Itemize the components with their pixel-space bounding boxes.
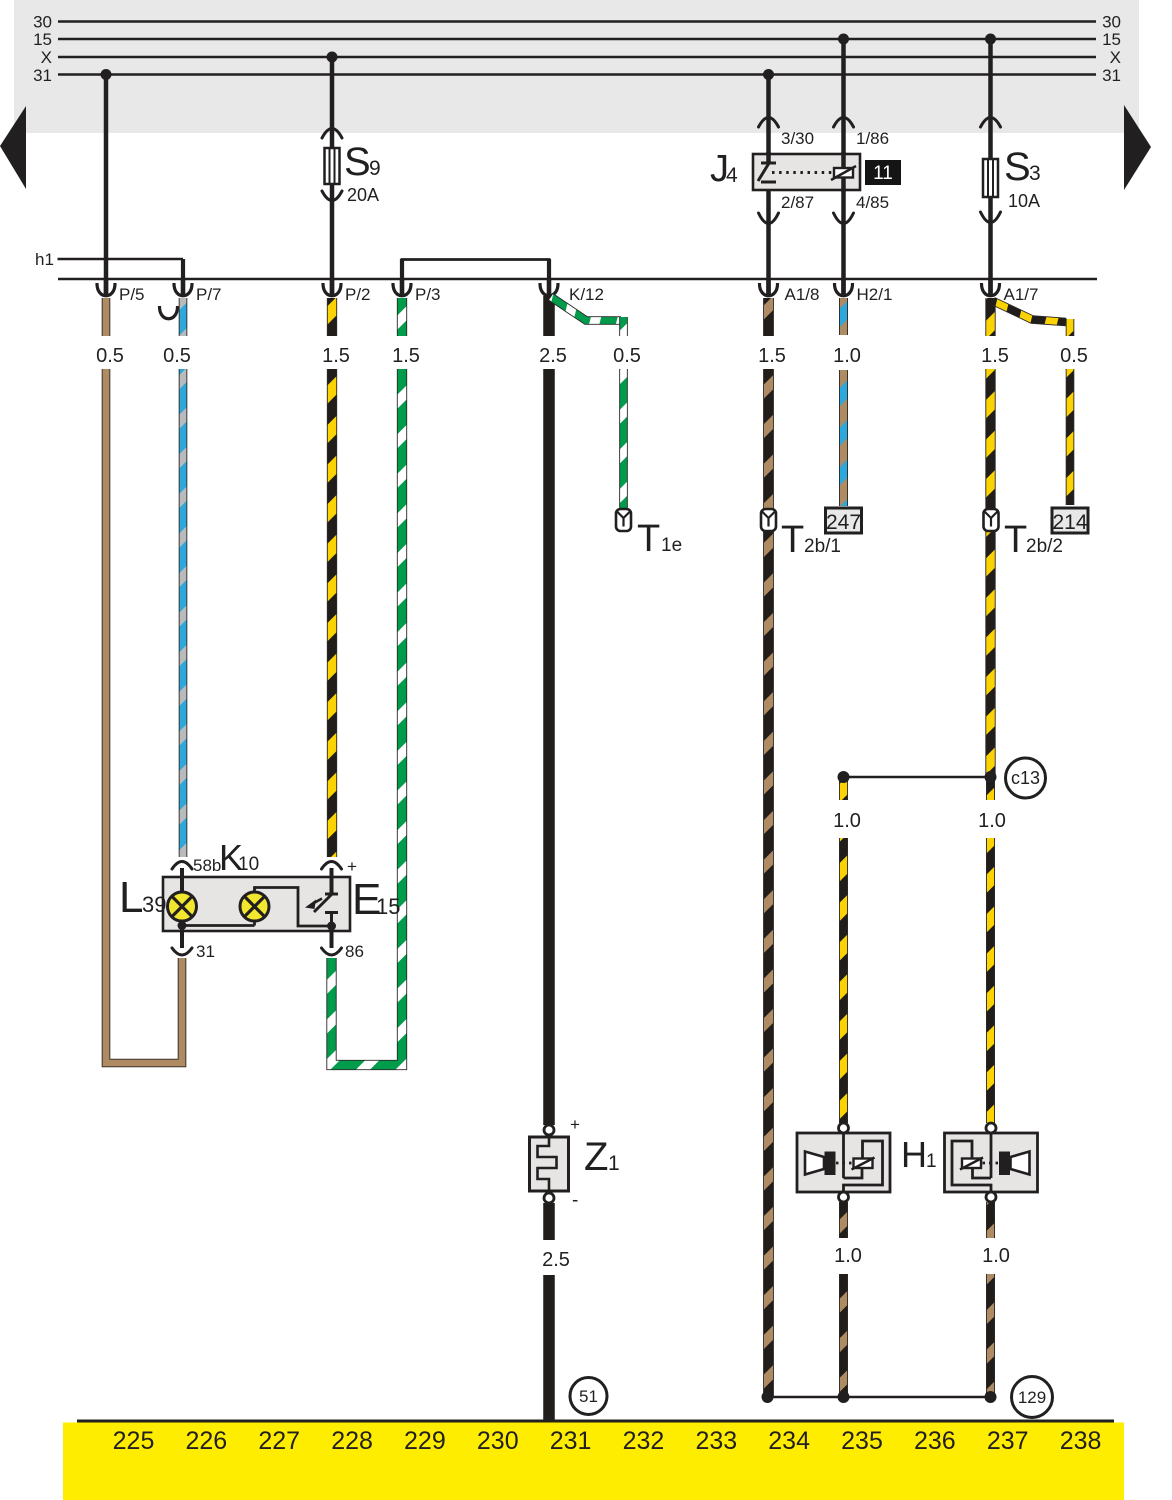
wire S9 upper (330, 57, 335, 148)
connector arch above S9 (322, 129, 342, 139)
svg-text:214: 214 (1052, 511, 1087, 534)
switch assembly box E15 (163, 877, 350, 931)
wire black Z1 to ground51 (543, 1203, 555, 1419)
wire terminal31 stub (180, 926, 184, 949)
svg-text:X: X (1110, 48, 1121, 67)
connector T2b/1 (761, 509, 841, 561)
wire yellow/black A1/7 through T2b/2 to node c13 (985, 298, 995, 777)
connector arch 58b (172, 862, 192, 870)
connector arch above S3 (981, 118, 1001, 128)
left page arrow (0, 106, 26, 189)
wire green/white P/3 to terminal86 (U-run) (332, 298, 403, 1065)
connector vee 86 (322, 948, 342, 955)
bus 31 (58, 73, 1096, 76)
svg-text:1/86: 1/86 (856, 129, 889, 148)
svg-text:229: 229 (404, 1427, 446, 1455)
svg-text:L: L (119, 873, 143, 922)
connector vee below J4 right (834, 213, 854, 224)
wire bridge stubs (400, 259, 404, 296)
svg-text:230: 230 (477, 1427, 519, 1455)
svg-text:0.5: 0.5 (613, 345, 641, 367)
node ground junction horn2 (985, 1391, 997, 1403)
svg-text:0.5: 0.5 (1060, 345, 1088, 367)
bus 30 (58, 20, 1096, 23)
wire terminal86 stub (330, 926, 334, 948)
node junction bus15/J4 (838, 34, 849, 45)
lamp K10 (240, 892, 269, 921)
svg-text:Z: Z (584, 1135, 608, 1179)
bus X (58, 56, 1096, 59)
designator E15 (352, 875, 400, 924)
gauge label 1.5 on A1/8 wire (758, 345, 786, 367)
svg-text:31: 31 (1102, 66, 1121, 85)
svg-text:247: 247 (826, 511, 861, 534)
gauge label 0.5 on P/7 wire (163, 345, 191, 367)
node c13 left junction (838, 771, 850, 783)
connector P/3 (393, 279, 441, 304)
wire K10 top link (255, 888, 332, 927)
gauge label 1.5 on A1/7 wire (981, 345, 1009, 367)
connector K/12 (540, 279, 604, 304)
svg-text:1.0: 1.0 (978, 810, 1006, 832)
bus labels right (1102, 13, 1121, 86)
connector vee below S9 (322, 191, 342, 201)
svg-text:c13: c13 (1011, 768, 1040, 788)
gauge label 1.5 on P/3 wire (392, 345, 420, 367)
connector arch above J4 right (834, 118, 854, 128)
wire P/5 feeder (104, 75, 109, 297)
svg-text:1: 1 (608, 1152, 620, 1175)
gray power-rail band (14, 0, 1139, 133)
svg-text:2.5: 2.5 (542, 1249, 570, 1271)
node junction busX/S9 (327, 52, 338, 63)
svg-text:T: T (781, 519, 804, 561)
component Z1 (530, 1115, 581, 1211)
wire L39 bottom to rail (181, 921, 184, 926)
connector P/7 (174, 279, 222, 304)
wire c13 tie line (844, 776, 991, 779)
svg-text:235: 235 (841, 1427, 883, 1455)
node c13 right junction (985, 771, 997, 783)
node junction bus31/J4 (763, 69, 774, 80)
svg-text:238: 238 (1060, 1427, 1102, 1455)
horn H1 left (797, 1123, 890, 1202)
lamp L39 (168, 892, 197, 921)
designator L39 (119, 873, 166, 922)
wire h1 drop to P/7 (181, 259, 185, 296)
wire green/white branch K/12 to T1e (551, 297, 621, 321)
svg-text:A1/8: A1/8 (785, 285, 820, 304)
svg-text:30: 30 (33, 13, 52, 32)
relay J4 designator (710, 148, 738, 190)
switch contact E15 (305, 868, 338, 926)
svg-text:P/5: P/5 (119, 285, 145, 304)
node junction bus15/S3 (985, 34, 996, 45)
node ground junction horn1 (838, 1391, 850, 1403)
svg-text:39: 39 (142, 892, 166, 917)
wire 58b stub (180, 868, 184, 893)
svg-text:227: 227 (258, 1427, 300, 1455)
fuse S9 (325, 140, 381, 205)
svg-text:1.0: 1.0 (834, 1245, 862, 1267)
node junction bus31/P5 (101, 69, 112, 80)
relay J4 (753, 152, 860, 192)
svg-text:15: 15 (376, 894, 400, 919)
gauge label 1.0 horn1 feed (833, 810, 861, 832)
connector T2b/2 (984, 509, 1063, 561)
svg-text:232: 232 (623, 1427, 665, 1455)
connector A1/8 (759, 279, 819, 304)
connector P/5 (97, 279, 145, 304)
svg-text:2/87: 2/87 (781, 193, 814, 212)
svg-text:H2/1: H2/1 (857, 285, 893, 304)
svg-text:10A: 10A (1008, 191, 1040, 211)
svg-text:S: S (1004, 145, 1031, 189)
svg-text:P/7: P/7 (196, 285, 222, 304)
wire bridge P/3 to K/12 (402, 260, 549, 280)
svg-text:1.5: 1.5 (322, 345, 350, 367)
svg-text:A1/7: A1/7 (1004, 285, 1039, 304)
svg-text:4: 4 (726, 164, 738, 187)
svg-text:1.5: 1.5 (758, 345, 786, 367)
gauge label 0.5 on P/5 wire (96, 345, 124, 367)
gauge label 1.0 horn2 feed (978, 810, 1006, 832)
plug 247 (826, 508, 862, 534)
designator H1 (901, 1134, 937, 1175)
wire S3 lower (988, 197, 993, 296)
main connector rail line (58, 278, 1097, 281)
plug 214 (1052, 508, 1088, 534)
ground point 51 (570, 1378, 607, 1415)
wire J4 right through (841, 39, 846, 296)
connector A1/7 (981, 279, 1038, 304)
svg-text:226: 226 (185, 1427, 227, 1455)
node switch output junction (327, 922, 336, 931)
node ground junction A1/8 (762, 1391, 774, 1403)
svg-text:X: X (41, 48, 52, 67)
fuse S3 (983, 145, 1041, 211)
svg-text:237: 237 (987, 1427, 1029, 1455)
svg-text:86: 86 (345, 942, 364, 961)
svg-text:1.0: 1.0 (833, 810, 861, 832)
svg-text:H: H (901, 1134, 927, 1175)
wire yellow/black branch A1/7 to plug214 (993, 301, 1066, 322)
svg-text:T: T (637, 518, 660, 560)
svg-text:234: 234 (768, 1427, 810, 1455)
svg-text:236: 236 (914, 1427, 956, 1455)
svg-text:1.0: 1.0 (833, 345, 861, 367)
svg-text:T: T (1004, 519, 1027, 561)
svg-text:15: 15 (1102, 30, 1121, 49)
svg-text:15: 15 (33, 30, 52, 49)
wire black/brown horn1 ground (839, 1202, 848, 1397)
svg-text:0.5: 0.5 (163, 345, 191, 367)
svg-text:h1: h1 (35, 250, 54, 269)
ground point 129 (1012, 1377, 1053, 1418)
connector P/2 (323, 279, 371, 304)
wire J4 switch-side lower (766, 182, 771, 296)
svg-text:31: 31 (196, 942, 215, 961)
connector vee 31 (172, 948, 192, 955)
svg-text:3/30: 3/30 (781, 129, 814, 148)
svg-text:1e: 1e (661, 535, 682, 556)
svg-text:1.5: 1.5 (981, 345, 1009, 367)
svg-text:1: 1 (926, 1151, 937, 1172)
wire S9 lower (330, 184, 335, 296)
connector T1e (616, 509, 682, 560)
svg-text:+: + (570, 1115, 580, 1134)
wire yellow/black horn feed left (839, 777, 848, 1123)
svg-text:1.0: 1.0 (982, 1245, 1010, 1267)
wire black K/12 to Z1 (543, 296, 555, 1125)
gauge label 2.5 on K/12 wire (539, 345, 567, 367)
connector arch plus (322, 862, 342, 870)
wire yellow/black horn feed right (986, 777, 995, 1123)
svg-text:S: S (344, 140, 371, 184)
wire black/brown horn2 ground (986, 1202, 995, 1397)
svg-text:51: 51 (579, 1387, 598, 1406)
svg-text:233: 233 (695, 1427, 737, 1455)
svg-text:58b: 58b (193, 856, 221, 875)
gauge label 0.5 on plug214 branch wire (1060, 345, 1088, 367)
connector vee below J4 left (759, 213, 779, 224)
wire S3 upper (988, 39, 993, 159)
svg-text:0.5: 0.5 (96, 345, 124, 367)
node c13 circle (1006, 758, 1046, 798)
svg-text:11: 11 (873, 163, 893, 184)
svg-text:2.5: 2.5 (539, 345, 567, 367)
wire ground tie 129 (768, 1396, 991, 1399)
svg-text:231: 231 (550, 1427, 592, 1455)
connector P/7 mate hook (159, 306, 177, 319)
connector vee below S3 (981, 212, 1001, 223)
svg-text:-: - (572, 1190, 578, 1211)
wire h1 horizontal (58, 258, 184, 261)
gauge label 1.5 on P/2 wire (322, 345, 350, 367)
svg-text:4/85: 4/85 (856, 193, 889, 212)
track number bar (63, 1423, 1124, 1500)
connector H2/1 (834, 279, 892, 304)
wire black/brown A1/8 through T2b/1 to ground129 (763, 298, 774, 1397)
svg-text:P/3: P/3 (415, 285, 441, 304)
relay current-track tag 11 (865, 160, 901, 185)
gauge label 0.5 on T1e branch wire (613, 345, 641, 367)
bus labels left (33, 13, 52, 86)
svg-text:P/2: P/2 (345, 285, 371, 304)
gauge label 1.0 on H2/1 wire (833, 345, 861, 367)
svg-text:129: 129 (1018, 1388, 1046, 1407)
wire brown/blue H2/1 to plug247 (839, 298, 848, 506)
bottom rail line (77, 1420, 1114, 1423)
bus 15 (58, 38, 1096, 41)
svg-text:3: 3 (1029, 162, 1041, 185)
svg-text:1.5: 1.5 (392, 345, 420, 367)
svg-text:30: 30 (1102, 13, 1121, 32)
designator Z1 (584, 1135, 620, 1179)
wire blue/white P/7 to 58b (179, 298, 188, 857)
svg-text:31: 31 (33, 66, 52, 85)
node lamp rail junction (178, 921, 187, 930)
svg-text:K/12: K/12 (569, 285, 604, 304)
svg-text:225: 225 (113, 1427, 155, 1455)
svg-text:2b/1: 2b/1 (804, 536, 841, 557)
wire J4 coil-side upper (766, 75, 771, 164)
svg-text:9: 9 (369, 157, 381, 180)
svg-text:228: 228 (331, 1427, 373, 1455)
connector arch above J4 left (759, 118, 779, 128)
wire internal lamp rail (182, 924, 255, 927)
node Z1 ground junction (543, 1415, 555, 1427)
horn H1 right (945, 1123, 1038, 1202)
svg-text:2b/2: 2b/2 (1026, 536, 1063, 557)
designator K10 (219, 837, 259, 878)
svg-text:+: + (347, 857, 357, 876)
wire brown P/5 to L39 terminal31 (U-run) (106, 298, 182, 1063)
right page arrow (1124, 105, 1151, 190)
svg-text:20A: 20A (347, 185, 379, 205)
wire yellow/black P/2 to E15 plus (327, 298, 337, 857)
gauge label 1.0 horn2 ground (982, 1245, 1010, 1267)
svg-text:10: 10 (238, 854, 259, 875)
gauge label 1.0 horn1 ground (834, 1245, 862, 1267)
